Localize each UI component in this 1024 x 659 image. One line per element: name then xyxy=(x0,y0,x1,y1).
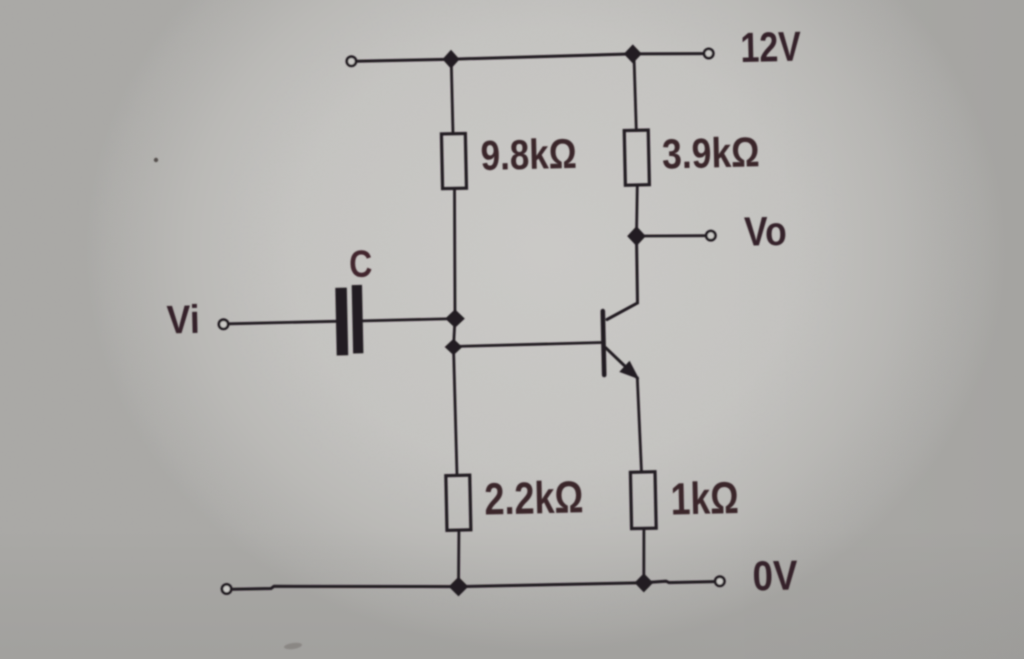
capacitor C left plate xyxy=(335,288,348,356)
wire J2 to R2 top xyxy=(634,54,636,130)
resistor R3 2.2k body xyxy=(446,475,471,530)
wire J3 to J4 xyxy=(454,319,456,347)
wire Vo node to terminal xyxy=(644,234,705,237)
wire base node to transistor base xyxy=(454,343,602,347)
transistor Q1 collector lead xyxy=(607,236,638,319)
wire Vi terminal to capacitor xyxy=(229,321,336,324)
wire top supply rail xyxy=(356,54,702,62)
svg-text:Vo: Vo xyxy=(744,208,788,255)
svg-text:1kΩ: 1kΩ xyxy=(670,472,739,525)
node junction J1 top of R1 xyxy=(443,50,460,69)
speck on paper upper-left xyxy=(154,158,158,162)
wire J1 to R1 top xyxy=(451,59,453,134)
terminal Vi xyxy=(219,320,228,329)
terminal bottom-left open xyxy=(222,584,231,593)
terminal top-left open xyxy=(347,57,356,66)
svg-text:9.8kΩ: 9.8kΩ xyxy=(480,130,577,179)
resistor R2 3.9k body xyxy=(624,130,649,185)
svg-text:3.9kΩ: 3.9kΩ xyxy=(662,128,761,177)
node junction J4 base node xyxy=(445,339,463,356)
wire R2 bottom to node Vo xyxy=(635,185,639,236)
node junction J6 ground of R4 xyxy=(635,573,654,592)
resistor R4 1k body xyxy=(630,472,656,529)
wire bottom ground rail xyxy=(232,581,714,589)
wire capacitor to node J3 xyxy=(363,319,455,321)
node junction J3 xyxy=(445,309,465,328)
terminal Vo xyxy=(706,231,715,240)
wire R4 bottom to ground rail xyxy=(642,528,645,582)
svg-text:12V: 12V xyxy=(740,23,802,71)
resistor R1 9.8k body xyxy=(441,133,466,188)
svg-text:C: C xyxy=(349,243,373,286)
transistor Q1 emitter lead xyxy=(606,348,638,378)
transistor Q1 emitter arrow xyxy=(619,361,639,380)
smudge on paper bottom xyxy=(284,642,303,650)
node junction J5 ground of R3 xyxy=(449,577,469,597)
wire emitter to R4 top xyxy=(637,378,641,472)
wire R1 bottom to node J3 xyxy=(453,188,456,318)
wire R3 bottom to ground rail xyxy=(457,530,460,587)
node junction J7 Vo xyxy=(627,226,646,246)
svg-text:Vi: Vi xyxy=(166,298,200,343)
node junction J2 top of R2 xyxy=(624,44,642,63)
terminal 12V xyxy=(704,49,713,58)
svg-text:2.2kΩ: 2.2kΩ xyxy=(484,471,584,524)
transistor Q1 base bar xyxy=(603,311,604,375)
wire J4 to R3 top xyxy=(454,347,458,475)
terminal 0V xyxy=(715,577,724,586)
svg-text:0V: 0V xyxy=(752,551,798,599)
capacitor C right plate xyxy=(352,285,364,354)
